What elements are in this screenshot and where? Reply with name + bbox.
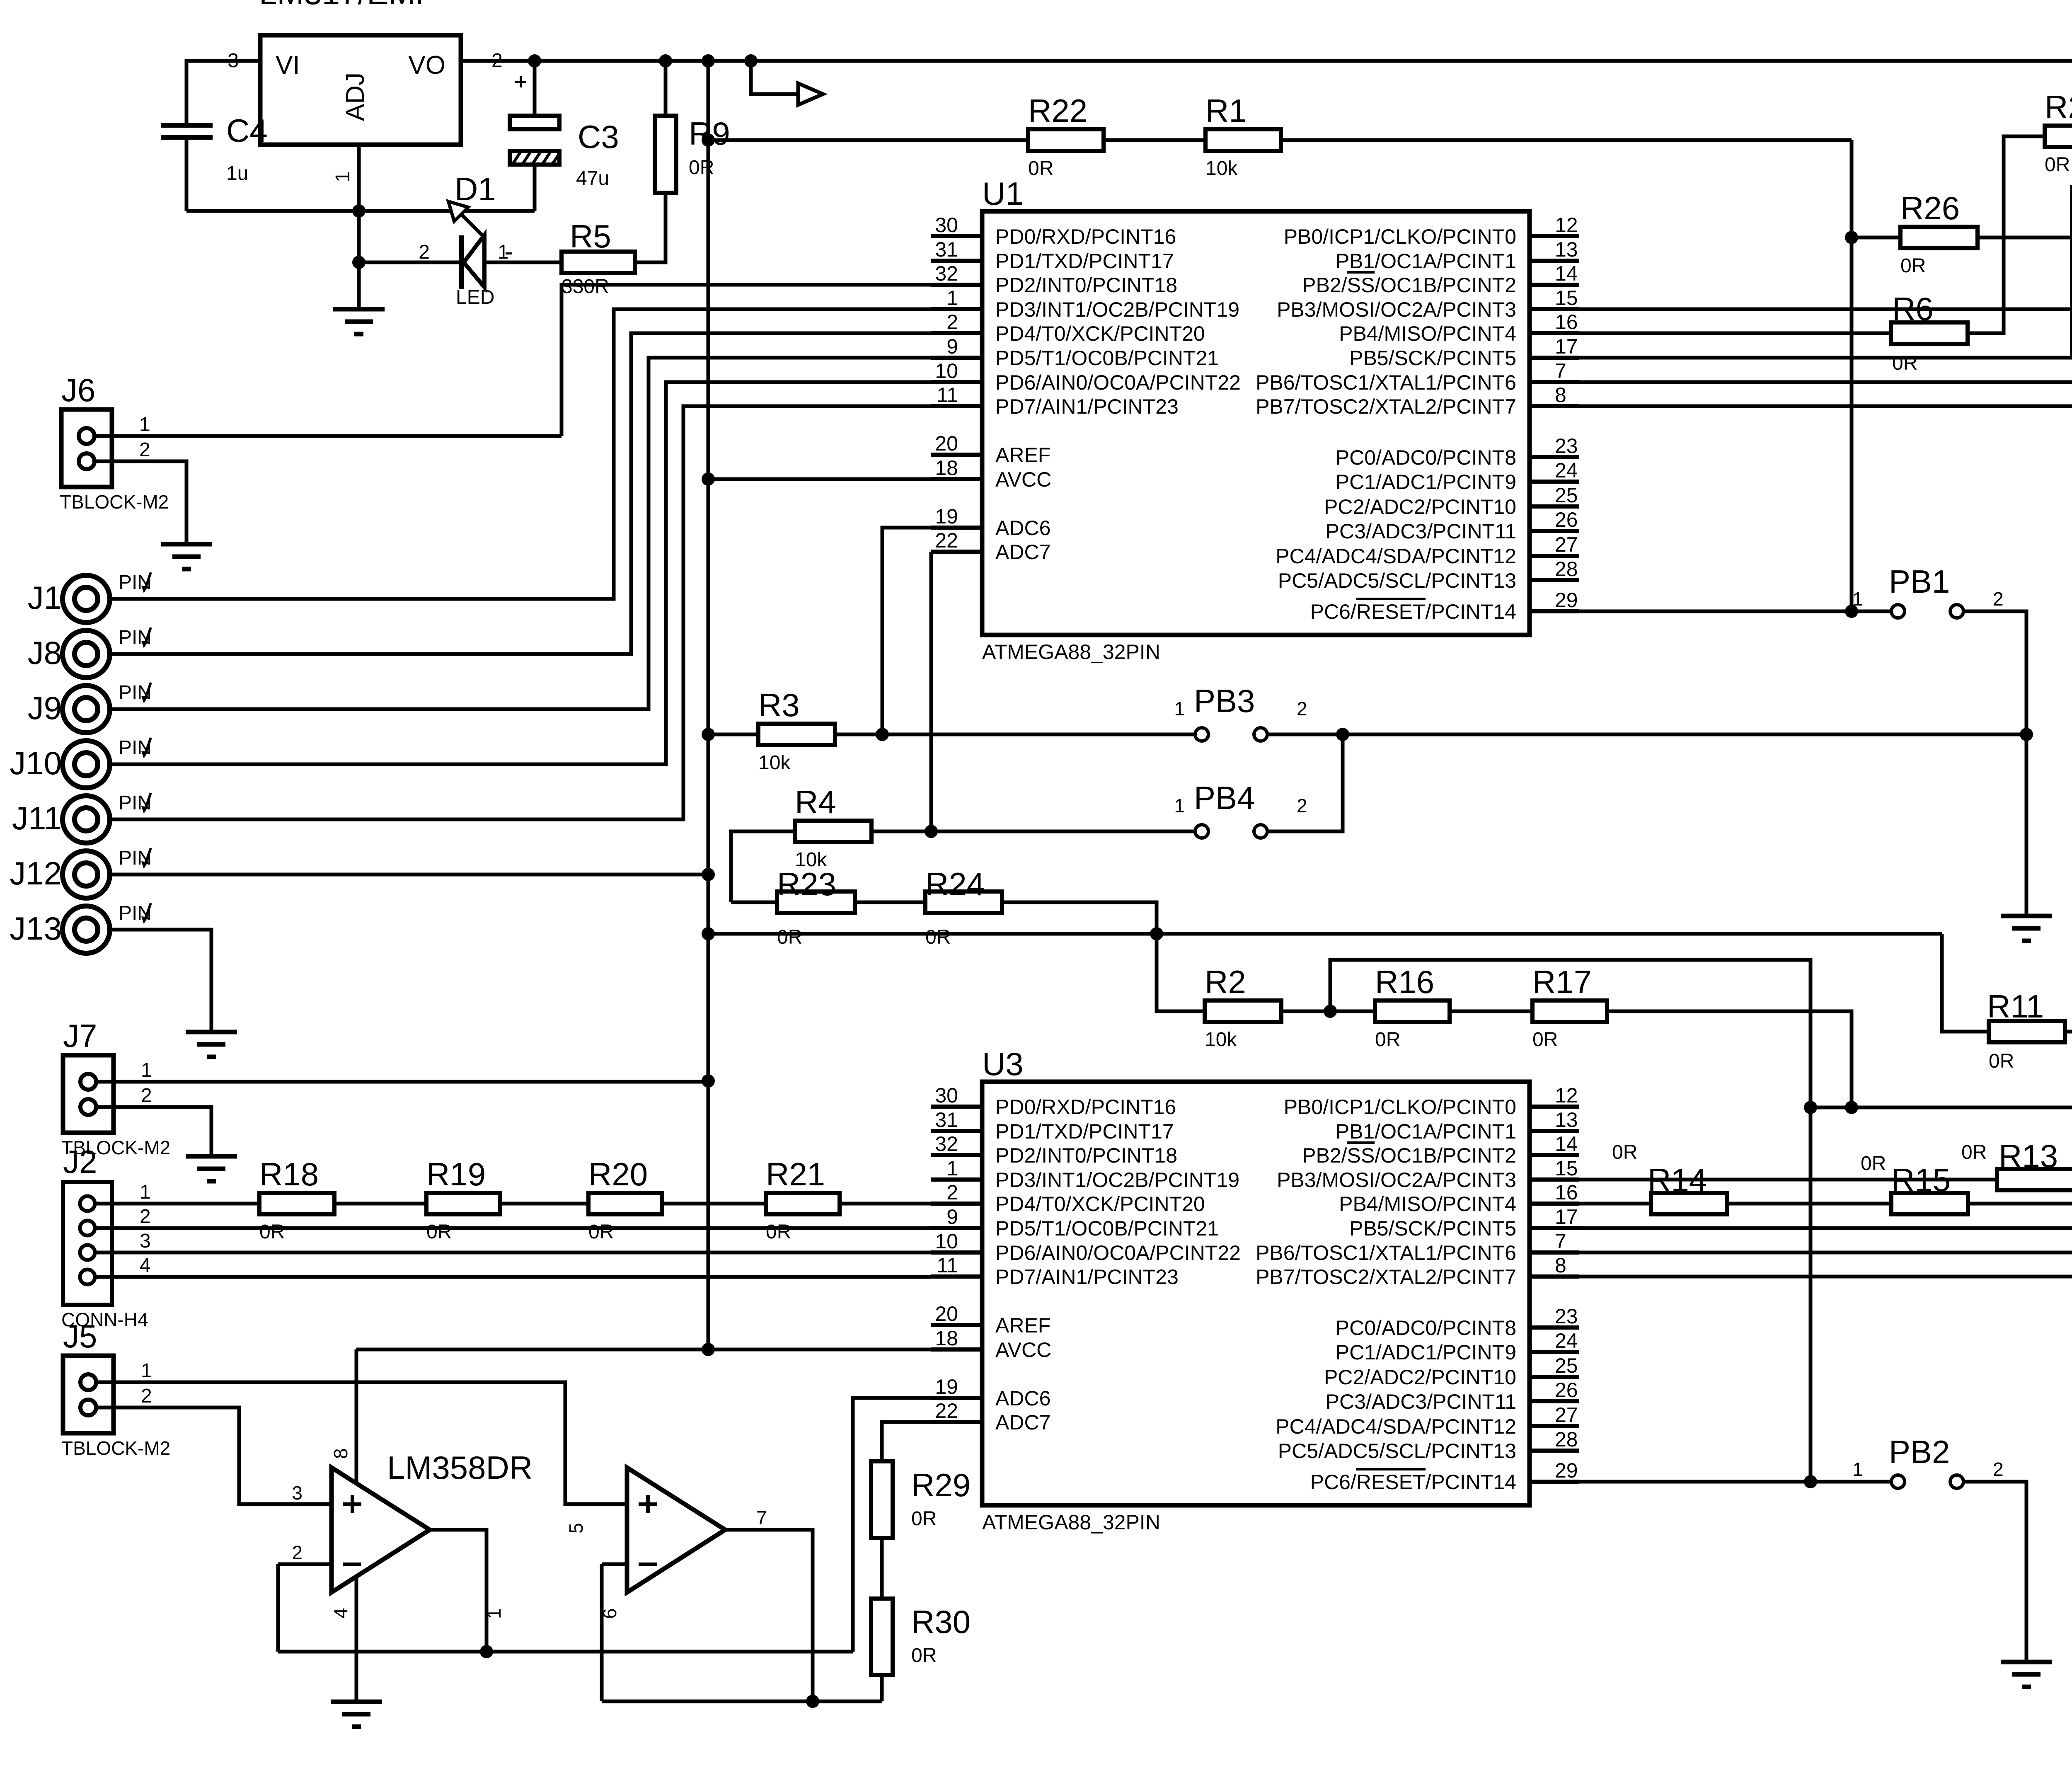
svg-text:1: 1 [141, 1059, 152, 1081]
svg-text:0R: 0R [925, 926, 951, 948]
svg-text:2: 2 [292, 1542, 303, 1563]
svg-text:24: 24 [1555, 459, 1578, 482]
svg-text:1: 1 [498, 241, 509, 263]
svg-text:LED: LED [456, 286, 494, 308]
svg-text:30: 30 [935, 1084, 958, 1107]
svg-text:28: 28 [1555, 557, 1578, 581]
svg-text:PB5/SCK/PCINT5: PB5/SCK/PCINT5 [1349, 346, 1516, 370]
svg-text:27: 27 [1555, 1403, 1578, 1427]
svg-text:0R: 0R [588, 1221, 614, 1243]
svg-text:J6: J6 [61, 372, 95, 408]
svg-text:32: 32 [935, 1132, 958, 1156]
svg-text:10: 10 [935, 1230, 958, 1253]
svg-text:0R: 0R [1612, 1141, 1637, 1163]
svg-text:PB0/ICP1/CLKO/PCINT0: PB0/ICP1/CLKO/PCINT0 [1284, 225, 1516, 248]
svg-text:10: 10 [935, 359, 958, 383]
svg-text:R26: R26 [1900, 190, 1960, 226]
svg-text:3: 3 [292, 1482, 303, 1504]
svg-text:19: 19 [935, 1375, 958, 1398]
svg-text:13: 13 [1555, 238, 1578, 261]
svg-text:R1: R1 [1205, 92, 1247, 129]
svg-text:PC0/ADC0/PCINT8: PC0/ADC0/PCINT8 [1336, 446, 1516, 469]
svg-text:15: 15 [1555, 1157, 1578, 1180]
svg-text:1: 1 [1852, 588, 1863, 610]
svg-text:12: 12 [1555, 213, 1578, 237]
svg-text:R11: R11 [1987, 988, 2044, 1025]
svg-text:10k: 10k [1205, 1029, 1237, 1051]
svg-text:13: 13 [1555, 1108, 1578, 1131]
svg-text:32: 32 [935, 262, 958, 285]
svg-text:PB1/OC1A/PCINT1: PB1/OC1A/PCINT1 [1336, 1120, 1516, 1143]
svg-text:J9: J9 [28, 690, 62, 726]
svg-text:17: 17 [1555, 1205, 1578, 1228]
svg-text:PB7/TOSC2/XTAL2/PCINT7: PB7/TOSC2/XTAL2/PCINT7 [1256, 395, 1516, 418]
svg-text:17: 17 [1555, 335, 1578, 358]
svg-text:PB2/SS/OC1B/PCINT2: PB2/SS/OC1B/PCINT2 [1302, 274, 1516, 297]
svg-text:R24: R24 [925, 866, 985, 902]
svg-text:PD2/INT0/PCINT18: PD2/INT0/PCINT18 [995, 1144, 1177, 1167]
svg-text:0R: 0R [1861, 1153, 1886, 1175]
svg-text:9: 9 [946, 335, 958, 358]
svg-text:PB1/OC1A/PCINT1: PB1/OC1A/PCINT1 [1336, 250, 1516, 273]
svg-text:D1: D1 [455, 171, 496, 207]
svg-text:7: 7 [1555, 1230, 1566, 1253]
svg-text:1: 1 [141, 1360, 152, 1382]
svg-text:PD6/AIN0/OC0A/PCINT22: PD6/AIN0/OC0A/PCINT22 [995, 371, 1241, 394]
svg-text:PD4/T0/XCK/PCINT20: PD4/T0/XCK/PCINT20 [995, 322, 1205, 345]
svg-text:0R: 0R [766, 1221, 791, 1243]
svg-text:PB2: PB2 [1889, 1434, 1950, 1470]
svg-text:VI: VI [276, 51, 300, 80]
svg-text:8: 8 [1555, 1254, 1566, 1277]
svg-text:ADC6: ADC6 [995, 516, 1051, 540]
svg-text:18: 18 [935, 1327, 958, 1350]
svg-text:PB6/TOSC1/XTAL1/PCINT6: PB6/TOSC1/XTAL1/PCINT6 [1256, 371, 1516, 394]
svg-text:2: 2 [1993, 1458, 2004, 1480]
svg-text:PD5/T1/OC0B/PCINT21: PD5/T1/OC0B/PCINT21 [995, 346, 1219, 370]
svg-text:0R: 0R [2045, 154, 2070, 176]
svg-text:PB5/SCK/PCINT5: PB5/SCK/PCINT5 [1349, 1217, 1516, 1240]
svg-text:PC6/RESET/PCINT14: PC6/RESET/PCINT14 [1310, 600, 1516, 623]
svg-text:AVCC: AVCC [995, 1338, 1051, 1361]
svg-text:1: 1 [946, 1157, 958, 1180]
svg-text:0R: 0R [777, 926, 802, 948]
svg-text:19: 19 [935, 505, 958, 528]
svg-text:TBLOCK-M2: TBLOCK-M2 [61, 1437, 170, 1459]
svg-text:R17: R17 [1532, 964, 1592, 1000]
svg-text:29: 29 [1555, 1459, 1578, 1482]
svg-text:PD7/AIN1/PCINT23: PD7/AIN1/PCINT23 [995, 1265, 1179, 1289]
svg-text:1: 1 [140, 1181, 151, 1203]
svg-text:23: 23 [1555, 1305, 1578, 1328]
svg-text:R16: R16 [1375, 964, 1434, 1000]
svg-text:0R: 0R [1028, 157, 1053, 179]
svg-text:2: 2 [1993, 588, 2004, 610]
svg-text:2: 2 [946, 310, 958, 334]
svg-text:PB2/SS/OC1B/PCINT2: PB2/SS/OC1B/PCINT2 [1302, 1144, 1516, 1167]
svg-text:1: 1 [139, 414, 150, 436]
svg-text:PB3: PB3 [1194, 683, 1255, 719]
svg-text:J7: J7 [63, 1017, 97, 1054]
svg-text:J10: J10 [10, 745, 62, 781]
svg-text:4: 4 [140, 1255, 151, 1277]
svg-text:24: 24 [1555, 1329, 1578, 1352]
svg-text:PD5/T1/OC0B/PCINT21: PD5/T1/OC0B/PCINT21 [995, 1217, 1219, 1240]
svg-text:30: 30 [935, 213, 958, 237]
svg-text:PD2/INT0/PCINT18: PD2/INT0/PCINT18 [995, 274, 1177, 297]
svg-text:PC3/ADC3/PCINT11: PC3/ADC3/PCINT11 [1326, 520, 1516, 543]
svg-text:25: 25 [1555, 1354, 1578, 1377]
svg-text:7: 7 [756, 1507, 767, 1529]
svg-text:11: 11 [937, 383, 958, 407]
svg-text:2: 2 [139, 439, 150, 461]
svg-text:PB3/MOSI/OC2A/PCINT3: PB3/MOSI/OC2A/PCINT3 [1277, 1168, 1516, 1192]
svg-text:2: 2 [141, 1085, 152, 1107]
svg-text:0R: 0R [911, 1508, 937, 1530]
svg-text:2: 2 [140, 1206, 151, 1228]
svg-text:0R: 0R [426, 1221, 452, 1243]
svg-text:PC5/ADC5/SCL/PCINT13: PC5/ADC5/SCL/PCINT13 [1278, 569, 1516, 592]
svg-text:PC2/ADC2/PCINT10: PC2/ADC2/PCINT10 [1324, 1366, 1516, 1389]
svg-text:9: 9 [946, 1205, 958, 1228]
svg-text:R18: R18 [259, 1156, 319, 1192]
svg-text:0R: 0R [1989, 1050, 2014, 1072]
svg-text:PD0/RXD/PCINT16: PD0/RXD/PCINT16 [995, 1095, 1176, 1119]
svg-text:PB6/TOSC1/XTAL1/PCINT6: PB6/TOSC1/XTAL1/PCINT6 [1256, 1241, 1516, 1265]
svg-text:PB7/TOSC2/XTAL2/PCINT7: PB7/TOSC2/XTAL2/PCINT7 [1256, 1265, 1516, 1289]
svg-text:0R: 0R [1532, 1029, 1558, 1051]
svg-text:PB4/MISO/PCINT4: PB4/MISO/PCINT4 [1339, 322, 1516, 345]
svg-text:PC1/ADC1/PCINT9: PC1/ADC1/PCINT9 [1336, 1341, 1516, 1364]
svg-text:0R: 0R [911, 1645, 937, 1667]
svg-text:14: 14 [1555, 1132, 1578, 1156]
svg-text:R2: R2 [1205, 964, 1246, 1000]
svg-text:0R: 0R [1375, 1029, 1400, 1051]
svg-text:16: 16 [1555, 1181, 1578, 1204]
svg-text:PD6/AIN0/OC0A/PCINT22: PD6/AIN0/OC0A/PCINT22 [995, 1241, 1241, 1265]
svg-text:PC1/ADC1/PCINT9: PC1/ADC1/PCINT9 [1336, 470, 1516, 494]
svg-text:U3: U3 [982, 1046, 1024, 1082]
svg-text:R3: R3 [758, 687, 800, 723]
svg-text:LM317/EMP: LM317/EMP [259, 0, 437, 11]
svg-text:2: 2 [946, 1181, 958, 1204]
svg-text:8: 8 [1555, 383, 1566, 407]
svg-text:1: 1 [946, 286, 958, 310]
svg-text:R23: R23 [777, 866, 836, 902]
svg-text:0R: 0R [1900, 255, 1926, 277]
svg-text:12: 12 [1555, 1084, 1578, 1107]
svg-text:U1: U1 [982, 175, 1024, 212]
svg-text:8: 8 [330, 1448, 351, 1459]
svg-text:PB4/MISO/PCINT4: PB4/MISO/PCINT4 [1339, 1192, 1516, 1216]
svg-text:R19: R19 [426, 1156, 486, 1192]
svg-text:6: 6 [599, 1608, 620, 1619]
svg-text:10k: 10k [758, 752, 791, 774]
svg-text:PC5/ADC5/SCL/PCINT13: PC5/ADC5/SCL/PCINT13 [1278, 1439, 1516, 1463]
svg-text:J1: J1 [28, 579, 62, 616]
svg-text:2: 2 [141, 1385, 152, 1407]
svg-text:VO: VO [408, 51, 445, 80]
svg-text:4: 4 [330, 1608, 351, 1618]
svg-text:PC2/ADC2/PCINT10: PC2/ADC2/PCINT10 [1324, 495, 1516, 518]
svg-text:ATMEGA88_32PIN: ATMEGA88_32PIN [982, 1511, 1160, 1534]
svg-text:R22: R22 [1028, 92, 1087, 129]
svg-text:22: 22 [935, 529, 958, 552]
svg-text:PD0/RXD/PCINT16: PD0/RXD/PCINT16 [995, 225, 1176, 248]
svg-text:2: 2 [1297, 698, 1307, 719]
svg-text:TBLOCK-M2: TBLOCK-M2 [60, 491, 169, 513]
svg-text:PC4/ADC4/SDA/PCINT12: PC4/ADC4/SDA/PCINT12 [1276, 1415, 1516, 1438]
svg-text:PC3/ADC3/PCINT11: PC3/ADC3/PCINT11 [1326, 1390, 1516, 1413]
svg-text:27: 27 [1555, 533, 1578, 556]
svg-text:PC0/ADC0/PCINT8: PC0/ADC0/PCINT8 [1336, 1316, 1516, 1340]
svg-text:20: 20 [935, 1302, 958, 1325]
svg-text:AREF: AREF [995, 443, 1051, 467]
svg-text:26: 26 [1555, 508, 1578, 531]
svg-text:18: 18 [935, 456, 958, 480]
svg-text:R21: R21 [766, 1156, 825, 1192]
svg-text:1: 1 [1174, 698, 1185, 719]
svg-text:0R: 0R [1961, 1141, 1987, 1163]
svg-text:0R: 0R [689, 157, 714, 179]
svg-text:47u: 47u [576, 167, 609, 189]
svg-text:1: 1 [1174, 795, 1185, 816]
svg-text:R28: R28 [2045, 89, 2072, 125]
svg-text:15: 15 [1555, 286, 1578, 310]
svg-text:28: 28 [1555, 1428, 1578, 1451]
svg-text:11: 11 [937, 1254, 958, 1277]
svg-text:1: 1 [332, 171, 354, 182]
svg-text:ADJ: ADJ [341, 73, 370, 121]
svg-text:PD7/AIN1/PCINT23: PD7/AIN1/PCINT23 [995, 395, 1179, 418]
svg-text:1u: 1u [226, 162, 248, 184]
svg-text:AREF: AREF [995, 1314, 1051, 1337]
svg-text:R30: R30 [911, 1604, 971, 1640]
svg-text:ATMEGA88_32PIN: ATMEGA88_32PIN [982, 640, 1160, 664]
svg-text:26: 26 [1555, 1378, 1578, 1402]
svg-text:3: 3 [140, 1230, 151, 1252]
svg-text:5: 5 [565, 1523, 587, 1533]
svg-text:PD3/INT1/OC2B/PCINT19: PD3/INT1/OC2B/PCINT19 [995, 1168, 1239, 1192]
svg-text:22: 22 [935, 1399, 958, 1422]
svg-text:J12: J12 [10, 855, 62, 891]
svg-text:R5: R5 [570, 218, 611, 254]
svg-text:2: 2 [1297, 795, 1307, 816]
svg-text:0R: 0R [1892, 352, 1917, 374]
svg-text:1: 1 [1852, 1458, 1863, 1480]
svg-text:PC6/RESET/PCINT14: PC6/RESET/PCINT14 [1310, 1470, 1516, 1494]
svg-text:20: 20 [935, 432, 958, 455]
svg-text:PD3/INT1/OC2B/PCINT19: PD3/INT1/OC2B/PCINT19 [995, 298, 1239, 321]
svg-text:14: 14 [1555, 262, 1578, 285]
svg-text:7: 7 [1555, 359, 1566, 383]
svg-text:C4: C4 [226, 112, 268, 149]
svg-text:16: 16 [1555, 310, 1578, 334]
svg-text:10k: 10k [1205, 157, 1238, 179]
svg-text:J8: J8 [28, 635, 62, 671]
svg-text:PB3/MOSI/OC2A/PCINT3: PB3/MOSI/OC2A/PCINT3 [1277, 298, 1516, 321]
svg-text:R29: R29 [911, 1467, 971, 1503]
svg-text:ADC7: ADC7 [995, 540, 1051, 564]
svg-text:31: 31 [935, 238, 958, 261]
svg-text:PD1/TXD/PCINT17: PD1/TXD/PCINT17 [995, 250, 1174, 273]
svg-text:PD4/T0/XCK/PCINT20: PD4/T0/XCK/PCINT20 [995, 1192, 1205, 1216]
svg-text:PB4: PB4 [1194, 780, 1255, 816]
svg-text:23: 23 [1555, 434, 1578, 458]
svg-text:PB0/ICP1/CLKO/PCINT0: PB0/ICP1/CLKO/PCINT0 [1284, 1095, 1516, 1119]
svg-text:PD1/TXD/PCINT17: PD1/TXD/PCINT17 [995, 1120, 1174, 1143]
svg-text:J11: J11 [12, 800, 62, 836]
svg-text:R4: R4 [795, 784, 836, 820]
svg-text:PC4/ADC4/SDA/PCINT12: PC4/ADC4/SDA/PCINT12 [1276, 545, 1516, 568]
svg-text:LM358DR: LM358DR [387, 1449, 533, 1486]
svg-text:AVCC: AVCC [995, 468, 1051, 491]
svg-text:J13: J13 [10, 910, 62, 947]
svg-text:2: 2 [419, 241, 430, 263]
svg-text:ADC6: ADC6 [995, 1387, 1051, 1410]
svg-text:25: 25 [1555, 484, 1578, 507]
svg-text:ADC7: ADC7 [995, 1411, 1051, 1434]
svg-text:R13: R13 [1999, 1138, 2058, 1174]
svg-text:J5: J5 [63, 1318, 97, 1354]
svg-text:31: 31 [935, 1108, 958, 1131]
svg-text:0R: 0R [259, 1221, 285, 1243]
svg-text:J2: J2 [63, 1143, 97, 1180]
svg-text:29: 29 [1555, 589, 1578, 612]
svg-text:1: 1 [483, 1608, 505, 1619]
svg-text:R20: R20 [588, 1156, 648, 1192]
svg-text:C3: C3 [578, 119, 619, 155]
svg-text:PB1: PB1 [1889, 563, 1950, 600]
